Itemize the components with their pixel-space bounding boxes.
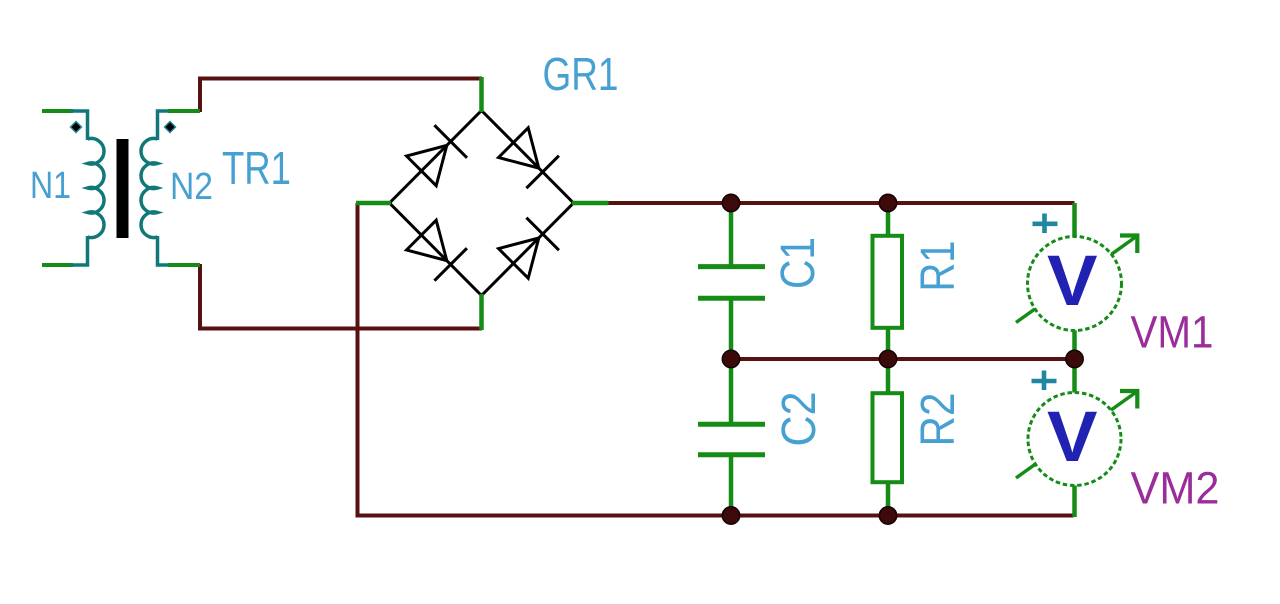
transformer TR1 primary top lead (teal corner) — [71, 111, 88, 140]
resistor R1 bottom stub — [886, 327, 891, 359]
svg-text:R1: R1 — [912, 241, 965, 292]
voltmeter VM1 circle — [1028, 237, 1122, 331]
transformer TR1 polarity dot primary — [70, 121, 83, 134]
capacitor C1 top wire — [729, 203, 734, 266]
transformer TR1 core (black bar) — [117, 139, 129, 238]
resistor R1 body — [873, 236, 903, 328]
capacitor C2 plates — [698, 424, 765, 454]
svg-text:VM1: VM1 — [1131, 307, 1214, 358]
transformer TR1 primary bottom lead (green) — [42, 263, 73, 267]
transformer TR1 primary top lead (green) — [42, 109, 73, 113]
voltmeter VM2 plus sign — [1032, 371, 1057, 391]
junction dot bottom rail at R2 — [879, 507, 896, 524]
svg-text:R2: R2 — [912, 393, 965, 447]
voltmeter VM2 arrow shaft — [1016, 392, 1137, 479]
resistor R2 top stub — [886, 359, 891, 394]
junction dot top rail at C1 — [722, 194, 739, 211]
transformer TR1 winding N1 (teal zigzag) — [88, 138, 105, 237]
junction dot mid rail at R1/R2 — [879, 350, 896, 367]
capacitor C1 plates — [698, 267, 765, 299]
svg-text:N2: N2 — [170, 166, 213, 208]
voltmeter VM2 circle — [1028, 393, 1121, 486]
transformer TR1 secondary bottom lead (green) — [168, 263, 200, 267]
transformer TR1 polarity dot secondary — [164, 121, 177, 134]
svg-text:GR1: GR1 — [543, 48, 619, 100]
junction dot mid rail at C1/C2 — [722, 350, 739, 367]
wire: dark red bottom-left AC wire from TR1 secondary bottom to bridge bottom — [200, 264, 482, 329]
svg-text:V: V — [1047, 242, 1098, 321]
bridge GR1 left stub (green) — [356, 201, 391, 206]
svg-text:C1: C1 — [772, 237, 825, 289]
capacitor C2 top wire — [729, 359, 734, 424]
voltmeter VM1 arrowhead — [1120, 236, 1137, 254]
transformer TR1 secondary bottom lead (teal corner) — [158, 236, 171, 265]
diode D4 (bottom-right arm, pointing to right vertex) — [499, 218, 559, 279]
svg-text:N1: N1 — [30, 165, 71, 207]
junction dot top rail at R1 — [879, 194, 896, 211]
voltmeter VM1 plus sign — [1033, 214, 1058, 234]
transformer TR1 winding N2 (teal zigzag) — [141, 138, 158, 237]
bridge GR1 top stub (green) — [479, 77, 484, 112]
capacitor C1 bottom wire — [729, 299, 734, 359]
svg-text:VM2: VM2 — [1131, 463, 1220, 514]
svg-text:TR1: TR1 — [222, 142, 291, 194]
transformer TR1 secondary top lead (green) — [168, 109, 200, 113]
voltmeter VM2 bottom stub (green) — [1072, 483, 1077, 517]
voltmeter VM1 bottom stub (green) — [1072, 327, 1077, 359]
bridge GR1 right stub (green) — [572, 201, 609, 206]
capacitor C2 bottom wire — [729, 455, 734, 516]
svg-text:C2: C2 — [773, 392, 826, 447]
wire: dark red DC plus top rail from bridge right vertex to VM1 — [607, 201, 1075, 205]
wire: dark red DC minus wire from bridge left vertex down and along bottom rail to VM2 — [358, 203, 1074, 516]
wire: dark red middle rail between C1/C2 junction and VM1/VM2 junction — [731, 357, 1075, 361]
voltmeter VM1 top stub (green) — [1072, 203, 1077, 240]
diode D3 (bottom-left arm, pointing to bottom vertex) — [407, 220, 467, 281]
transformer TR1 secondary top lead (teal corner) — [158, 111, 171, 140]
transformer TR1 primary bottom lead (teal corner) — [71, 236, 88, 265]
diode D2 (top-right arm, pointing to right vertex) — [499, 128, 559, 188]
junction dot bottom rail at C2 — [722, 507, 739, 524]
resistor R2 body — [873, 393, 903, 482]
voltmeter VM2 top stub (green) — [1072, 359, 1077, 395]
resistor R2 bottom stub — [886, 481, 891, 516]
diode D1 (top-left arm, pointing to top vertex) — [407, 125, 468, 186]
voltmeter VM2 arrowhead — [1120, 391, 1137, 409]
resistor R1 top stub — [886, 203, 891, 237]
bridge GR1 bottom stub (green) — [479, 294, 484, 330]
wire: dark red top-left AC wire from TR1 secondary top to bridge top — [200, 79, 482, 113]
svg-text:V: V — [1047, 398, 1098, 477]
bridge rectifier GR1 diamond outline — [390, 111, 574, 296]
voltmeter VM1 arrow shaft — [1016, 236, 1137, 323]
junction dot mid rail at VM1/VM2 — [1066, 350, 1083, 367]
